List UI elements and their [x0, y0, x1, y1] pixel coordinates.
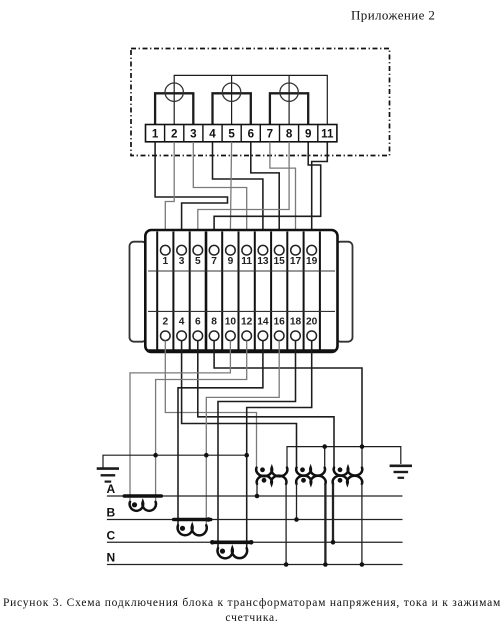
svg-text:1: 1: [162, 256, 168, 267]
wire box-4 to TV2: [182, 341, 297, 468]
svg-text:6: 6: [195, 316, 201, 327]
neutral common line: [287, 447, 401, 467]
bus N: [107, 551, 403, 565]
current transformer TA1: [124, 496, 161, 511]
test box body: [145, 230, 337, 352]
svg-text:счетчика.: счетчика.: [225, 612, 278, 624]
meter terminal strip: [146, 125, 337, 142]
wire box-20 to TA3 end: [247, 341, 312, 548]
bus B: [107, 506, 403, 520]
figure caption: [3, 597, 501, 624]
svg-text:2: 2: [171, 127, 177, 140]
wire box-8 to neutral line: [214, 341, 362, 447]
wire meter-9 to box-7: [214, 142, 321, 246]
svg-text:11: 11: [321, 127, 334, 140]
test box top terminals 1-19: [161, 245, 318, 267]
wire meter-5 to box-9: [230, 142, 231, 246]
TA3 bar end dots: [210, 540, 254, 545]
test box bottom terminals 2-20: [161, 316, 318, 340]
ground bus wire: [103, 455, 247, 467]
svg-text:6: 6: [248, 127, 255, 140]
wire meter-3 to box-11: [193, 142, 246, 246]
svg-text:7: 7: [211, 256, 217, 267]
wire meter-2 to box-1: [165, 142, 174, 246]
wire meter-4 to box-13: [213, 142, 263, 246]
svg-text:C: C: [107, 528, 116, 542]
svg-text:17: 17: [290, 256, 302, 267]
svg-text:19: 19: [306, 256, 318, 267]
svg-text:12: 12: [241, 316, 253, 327]
svg-text:N: N: [107, 551, 116, 565]
wire box-2 to TV1: [165, 341, 256, 468]
test box bottom edge: [147, 349, 335, 352]
voltage transformer TV1: [256, 467, 287, 564]
wire box-14 to TA2 start: [178, 341, 263, 526]
svg-text:Приложение 2: Приложение 2: [351, 8, 435, 23]
svg-text:9: 9: [305, 127, 312, 140]
wire box-18 to TA3 start: [218, 341, 296, 548]
svg-text:4: 4: [209, 127, 216, 140]
current transformer TA3: [214, 542, 251, 558]
meter input circle symbol 1: [165, 83, 183, 101]
meter input circle symbol 2: [222, 83, 240, 101]
wire meter-1 to box-3: [155, 142, 227, 246]
wire meter-8 to box-5: [198, 142, 289, 246]
svg-text:16: 16: [274, 316, 286, 327]
wire box-16 to TA2 end: [206, 341, 279, 526]
svg-text:Рисунок 3. Схема подключения б: Рисунок 3. Схема подключения блока к тра…: [3, 597, 501, 609]
voltage tap net: [174, 75, 327, 124]
svg-text:9: 9: [228, 256, 234, 267]
ground symbol left: [97, 469, 119, 482]
wire box-12 to TA1 end: [156, 341, 247, 502]
wire meter-11 to box-19: [312, 142, 328, 246]
svg-text:13: 13: [257, 256, 269, 267]
current transformer TA2: [174, 520, 211, 536]
svg-text:10: 10: [225, 316, 237, 327]
voltage transformer TV2: [296, 447, 326, 565]
wire box-10 to TA1 start: [130, 341, 230, 502]
svg-text:15: 15: [274, 256, 286, 267]
svg-text:4: 4: [179, 316, 185, 327]
junction dots ground bus: [153, 453, 249, 458]
wire box-6 to TV3: [198, 341, 334, 468]
voltage transformer TV3: [333, 447, 363, 565]
meter dashed enclosure: [131, 49, 390, 156]
svg-text:14: 14: [257, 316, 269, 327]
svg-text:A: A: [107, 482, 116, 496]
bus C: [107, 528, 403, 542]
svg-text:8: 8: [211, 316, 217, 327]
svg-text:11: 11: [241, 256, 252, 267]
svg-text:20: 20: [306, 316, 318, 327]
svg-text:B: B: [107, 506, 116, 520]
svg-text:5: 5: [195, 256, 201, 267]
wire meter-6 to box-15: [251, 142, 279, 246]
junction dots bus N: [284, 562, 364, 567]
ground symbol right: [390, 466, 412, 478]
test box inner rails: [148, 270, 335, 272]
meter input circle symbol 3: [280, 83, 298, 101]
svg-text:5: 5: [228, 127, 235, 140]
test box left ear: [130, 242, 147, 342]
svg-text:7: 7: [267, 127, 273, 140]
svg-text:8: 8: [286, 127, 293, 140]
svg-text:3: 3: [190, 127, 197, 140]
test box column separators: [157, 232, 320, 351]
svg-text:18: 18: [290, 316, 302, 327]
meter current loop bracket 3: [270, 93, 308, 124]
meter current loop bracket 2: [213, 93, 251, 124]
svg-text:3: 3: [179, 256, 185, 267]
meter current loop bracket 1: [155, 93, 193, 124]
bus A: [107, 482, 403, 496]
junction dots phase buses: [255, 494, 336, 545]
junction dots neutral line: [322, 444, 364, 449]
test box right ear: [336, 242, 353, 342]
svg-text:2: 2: [162, 316, 168, 327]
wire meter-7 to box-17: [270, 142, 296, 246]
TA2 bar end dot: [206, 517, 211, 522]
svg-text:1: 1: [152, 127, 159, 140]
